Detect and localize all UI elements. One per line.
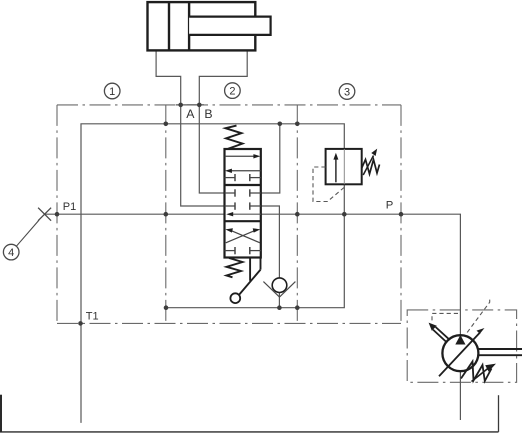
section divider 2	[296, 105, 298, 324]
valve V1 box1 internals	[225, 156, 261, 181]
wire: cylinder port A to valve	[156, 50, 224, 206]
relief valve internal arrow	[335, 159, 337, 183]
valve V1 manual lever	[239, 258, 260, 295]
check valve CV1	[272, 278, 287, 293]
svg-text:4: 4	[8, 247, 14, 259]
svg-text:P1: P1	[63, 201, 76, 213]
pump boundary (dash-dot box)	[407, 310, 516, 382]
balloon 1	[104, 83, 120, 99]
wire: cylinder port B to valve	[199, 50, 247, 193]
lever knob	[230, 293, 240, 303]
manifold boundary (outer dash-dot box)	[57, 105, 401, 324]
balloon 4	[3, 244, 19, 260]
valve V1 bottom spring	[227, 258, 243, 277]
relief valve RV1 body	[326, 149, 362, 184]
pump P1 circle	[442, 335, 478, 371]
svg-text:P: P	[386, 200, 394, 212]
balloon 2	[225, 83, 241, 99]
relief valve adjust arrow	[363, 156, 373, 176]
leader line to balloon 4	[16, 220, 39, 246]
wire: pump suction below circle	[459, 371, 461, 420]
section divider 1	[165, 105, 167, 324]
wire: valve right port up to gallery	[261, 124, 280, 193]
pump outlet double line	[478, 349, 522, 355]
valve V1 box3 internals (crossed arrows)	[225, 231, 261, 255]
closed port X symbol at P1	[38, 208, 51, 221]
cylinder C1 body	[148, 2, 256, 50]
wire: solid segment of top boundary between A and B dots	[176, 104, 204, 106]
relief valve spring	[362, 160, 380, 175]
svg-text:T1: T1	[86, 311, 99, 323]
wire: bottom gallery to relief drop	[166, 184, 344, 308]
svg-text:2: 2	[229, 86, 235, 98]
pump pilot dashes right	[467, 298, 490, 333]
wire: top tank gallery	[81, 124, 344, 423]
cylinder C1 rod	[189, 17, 271, 35]
valve V1 box2 internals (blocked ports + P passage)	[225, 189, 261, 214]
balloon 3	[339, 84, 355, 100]
svg-text:3: 3	[344, 87, 350, 99]
pump inlet arrow (double line)	[433, 327, 449, 342]
relief valve through line	[343, 149, 345, 184]
relief valve pilot line (dashed)	[313, 167, 344, 202]
frame right corner	[498, 395, 500, 432]
svg-text:B: B	[204, 107, 212, 121]
frame left corner	[0, 395, 2, 432]
frame bottom line	[0, 431, 499, 433]
pump compensator spring and arrow	[461, 362, 492, 382]
wire: P1 pressure line	[45, 214, 461, 335]
pump pilot dashes left	[432, 313, 458, 321]
svg-text:1: 1	[109, 86, 115, 98]
wire: valve right port down through check valve to bottom gallery	[261, 206, 280, 308]
pump triangle	[455, 335, 465, 345]
svg-text:A: A	[186, 107, 195, 121]
valve V1 top spring	[226, 126, 243, 149]
pump variable arrow	[439, 333, 480, 377]
directional valve V1 body	[225, 149, 261, 258]
